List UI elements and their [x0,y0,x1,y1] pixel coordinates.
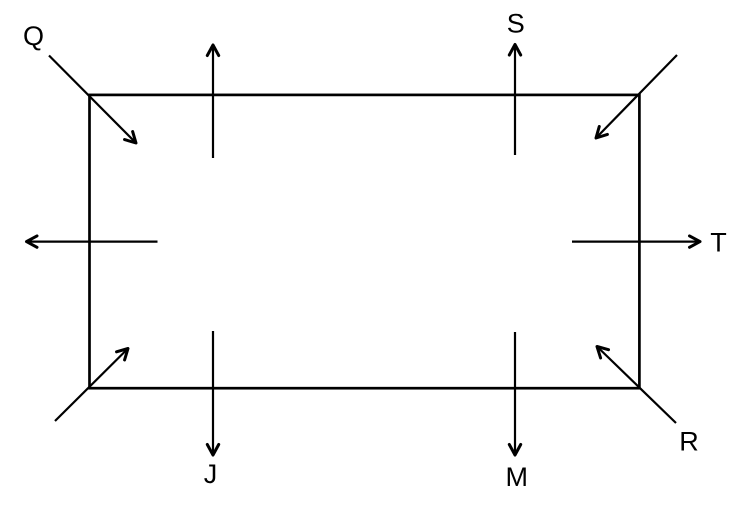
arrow T (right horizontal) [572,241,700,243]
svg-text:J: J [204,459,218,489]
svg-text:S: S [507,9,525,39]
arrow R (diagonal into bottom-right corner) [597,347,676,424]
arrow left (left horizontal, unlabeled) [27,241,158,243]
svg-text:Q: Q [23,21,44,51]
arrow diagonal into top-right corner (unlabeled) [596,55,677,138]
svg-text:M: M [505,462,528,492]
svg-text:T: T [710,227,727,257]
arrow up (top-left vertical, unlabeled) [212,45,214,158]
arrow J (bottom-left vertical, down) [212,331,214,455]
arrow Q (diagonal into top-left corner) [49,56,136,144]
arrow M (bottom-right vertical, down) [514,332,516,455]
arrow diagonal into bottom-left corner (unlabeled) [55,349,128,422]
svg-text:R: R [679,427,699,457]
arrow S (top-right vertical, up) [514,45,516,156]
rectangle body [90,95,640,388]
